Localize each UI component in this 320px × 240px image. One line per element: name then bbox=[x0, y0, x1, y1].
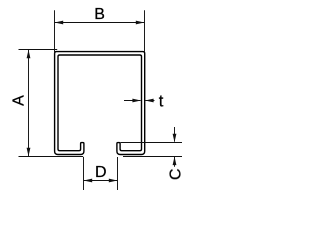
dimension A: bottom arrowhead bbox=[27, 148, 31, 157]
dimension t: right leader line bbox=[145, 100, 154, 102]
dimension D: extension line left bbox=[83, 157, 85, 190]
dimension D: dimension line bbox=[84, 180, 118, 182]
dimension B: extension line right bbox=[144, 10, 146, 51]
svg-text:D: D bbox=[95, 164, 107, 181]
dimension C: upper arrowhead (pointing down) bbox=[173, 134, 177, 143]
svg-text:A: A bbox=[11, 95, 28, 106]
dimension t: left leader line bbox=[124, 100, 141, 102]
dimension D: left arrowhead bbox=[84, 179, 93, 183]
dimension C: lower arrow line bbox=[174, 157, 176, 167]
dimension A: dimension line bbox=[28, 50, 30, 157]
svg-text:B: B bbox=[94, 6, 105, 23]
dimension C: extension line top (hook top level) bbox=[121, 142, 182, 144]
dimension B: right arrowhead bbox=[136, 21, 145, 25]
dimension B: extension line left bbox=[54, 10, 56, 54]
dimension A: top arrowhead bbox=[27, 50, 31, 59]
dimension A: extension line bottom bbox=[19, 156, 84, 158]
dimension t: left arrowhead (pointing right at wall) bbox=[132, 99, 141, 103]
dimension C: lower arrowhead (pointing up) bbox=[173, 157, 177, 166]
dimension C: upper arrow line bbox=[174, 127, 176, 142]
dimension D: right arrowhead bbox=[109, 179, 118, 183]
dimension A: extension line top bbox=[19, 49, 58, 51]
dimension B: dimension line bbox=[55, 22, 145, 24]
dimension C: extension line bottom (profile bottom level) bbox=[123, 156, 182, 158]
dimension t: right arrowhead (pointing left at wall) bbox=[145, 99, 154, 103]
svg-text:t: t bbox=[159, 92, 164, 110]
dimension D: extension line right bbox=[117, 157, 119, 190]
svg-text:C: C bbox=[168, 169, 185, 181]
dimension B: left arrowhead bbox=[55, 21, 64, 25]
C-channel profile outline bbox=[55, 52, 145, 155]
